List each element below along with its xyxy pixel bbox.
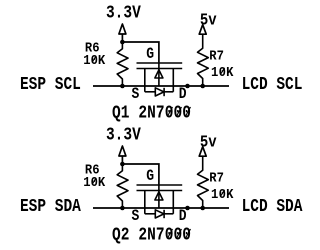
svg-text:R7: R7 [209,48,224,64]
power symbol 5v arrow (SDA block) [199,147,206,157]
junction dot R6 / SCL wire [120,84,125,89]
svg-text:LCD SDA: LCD SDA [242,196,304,217]
transistor Q1 2N7000 body [137,62,183,96]
svg-text:S: S [132,86,140,103]
junction dot 3.3V / R6 / gate (SDA block) [120,162,125,167]
label 10K (R6 value, SDA block) with slashed zero [83,174,105,190]
label 5v net (SDA block) [200,132,217,151]
svg-text:G: G [146,168,154,185]
svg-text:ESP SCL: ESP SCL [20,74,81,95]
wire gate of Q1 to 3.3V rail [122,42,158,62]
label 5v net (SCL block) [200,10,217,29]
label G (gate pin Q1) [146,46,154,63]
junction dot R7 / SCL wire [200,84,205,89]
junction dot R6 / SDA wire [120,206,125,211]
label LCD SCL [242,74,303,95]
svg-text:S: S [132,208,140,225]
label LCD SDA [242,196,304,217]
label Q2 2N7000 with slashed zeros [112,225,191,246]
junction dot 3.3V / R6 / gate (SCL block) [120,40,125,45]
wire gate of Q2 to 3.3V rail [122,164,158,184]
label ESP SCL [20,74,81,95]
resistor R7 (SCL pull-up to 5v) [198,34,209,86]
resistor R6 (SCL pull-up to 3.3V) [117,42,128,86]
label R6 (SDA block) [85,162,100,178]
svg-text:5v: 5v [200,132,217,151]
resistor R7 (SDA pull-up to 5v) [198,156,209,208]
wire ESP SDA (source side) [93,207,229,209]
svg-text:3.3V: 3.3V [106,3,142,24]
wire ESP SCL (source side) [93,85,229,87]
power symbol 3.3V arrow (SCL block) [119,24,126,42]
label S (source pin Q2) [132,208,140,225]
svg-text:D: D [179,208,187,225]
junction dot drain Q1 / SCL wire [185,84,190,89]
svg-text:R7: R7 [209,170,224,186]
svg-text:D: D [179,86,187,103]
label 10K (R6 value) with slashed zero [83,52,105,68]
label R7 (SDA block) [209,170,224,186]
resistor R6 (SDA pull-up to 3.3V) [117,164,128,208]
power symbol 3.3V arrow (SDA block) [119,146,126,164]
svg-text:LCD SCL: LCD SCL [242,74,303,95]
svg-text:10K: 10K [83,174,105,190]
label 3.3V net (SCL block) [106,3,142,24]
label D (drain pin Q2) [179,208,187,225]
label 10K (R7 value) with slashed zero [211,64,234,80]
label R7 [209,48,224,64]
label 10K (R7 value, SDA block) with slashed zero [211,186,234,202]
label G (gate pin Q2) [146,168,154,185]
svg-text:ESP SDA: ESP SDA [20,196,82,217]
label 3.3V net (SDA block) [106,125,142,146]
svg-text:3.3V: 3.3V [106,125,142,146]
svg-text:G: G [146,46,154,63]
label D (drain pin Q1) [179,86,187,103]
svg-text:Q1 2N7000: Q1 2N7000 [112,103,191,124]
label S (source pin Q1) [132,86,140,103]
label Q1 2N7000 with slashed zeros [112,103,191,124]
junction dot R7 / SDA wire [200,206,205,211]
svg-text:5v: 5v [200,10,217,29]
power symbol 5v arrow (SCL block) [199,25,206,35]
svg-text:10K: 10K [83,52,105,68]
transistor Q2 2N7000 body [137,184,183,218]
junction dot drain Q2 / SDA wire [185,206,190,211]
label ESP SDA [20,196,82,217]
label R6 [85,40,100,56]
svg-text:Q2 2N7000: Q2 2N7000 [112,225,191,246]
